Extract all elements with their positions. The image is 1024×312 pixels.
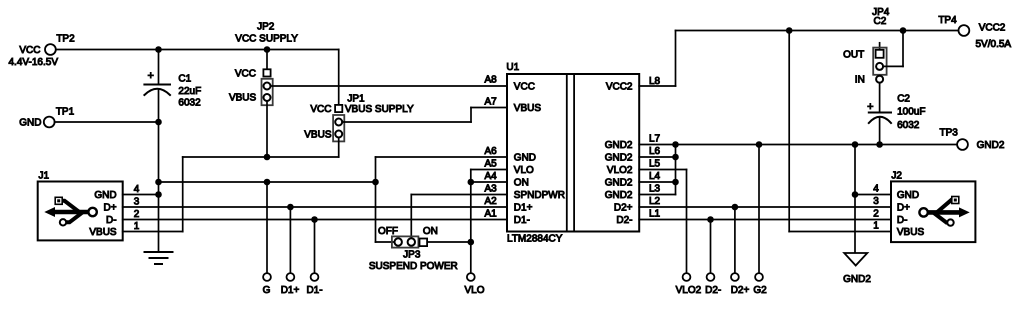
svg-text:GND: GND	[94, 190, 116, 201]
svg-text:A5: A5	[484, 159, 497, 170]
svg-text:6032: 6032	[897, 120, 920, 131]
svg-text:ON: ON	[423, 226, 438, 237]
svg-text:SUSPEND POWER: SUSPEND POWER	[369, 261, 458, 272]
svg-text:OFF: OFF	[378, 226, 398, 237]
svg-text:D-: D-	[106, 215, 117, 226]
svg-text:A6: A6	[484, 146, 497, 157]
svg-text:22uF: 22uF	[178, 86, 201, 97]
svg-text:L2: L2	[649, 196, 661, 207]
svg-text:SPNDPWR: SPNDPWR	[514, 190, 565, 201]
svg-text:D2+: D2+	[731, 285, 750, 296]
svg-text:D2+: D2+	[614, 203, 633, 214]
svg-text:JP1: JP1	[347, 94, 365, 105]
svg-text:D-: D-	[897, 215, 908, 226]
svg-text:+: +	[147, 70, 153, 82]
svg-text:VCC: VCC	[19, 45, 40, 56]
svg-text:VCC: VCC	[310, 104, 331, 115]
svg-text:GND2: GND2	[605, 153, 633, 164]
svg-text:VLO2: VLO2	[676, 285, 702, 296]
svg-text:TP2: TP2	[56, 34, 75, 45]
svg-text:3: 3	[134, 197, 140, 208]
svg-text:L5: L5	[649, 159, 661, 170]
svg-text:GND2: GND2	[605, 140, 633, 151]
svg-text:OUT: OUT	[843, 50, 864, 61]
svg-text:JP3: JP3	[403, 250, 421, 261]
svg-text:VCC2: VCC2	[979, 22, 1006, 33]
svg-text:G2: G2	[753, 285, 767, 296]
svg-text:A1: A1	[484, 209, 497, 220]
svg-text:GND: GND	[514, 153, 536, 164]
svg-text:VLO: VLO	[514, 165, 534, 176]
svg-text:L4: L4	[649, 171, 661, 182]
svg-text:VBUS: VBUS	[229, 93, 257, 104]
svg-text:A3: A3	[484, 184, 497, 195]
svg-text:A2: A2	[484, 196, 497, 207]
svg-text:L3: L3	[649, 184, 661, 195]
svg-text:A7: A7	[484, 97, 497, 108]
svg-text:GND2: GND2	[843, 274, 871, 285]
svg-text:VBUS: VBUS	[89, 227, 117, 238]
svg-text:GND: GND	[19, 118, 41, 129]
svg-text:A8: A8	[484, 75, 497, 86]
svg-text:4.4V-16.5V: 4.4V-16.5V	[9, 57, 59, 68]
svg-text:LTM2884CY: LTM2884CY	[507, 234, 563, 245]
svg-text:GND2: GND2	[605, 178, 633, 189]
svg-text:GND: GND	[897, 190, 919, 201]
svg-text:VLO: VLO	[464, 285, 484, 296]
svg-text:J2: J2	[891, 171, 902, 182]
svg-text:IN: IN	[855, 75, 865, 86]
svg-text:D1+: D1+	[281, 285, 300, 296]
svg-text:TP1: TP1	[56, 107, 75, 118]
svg-text:G: G	[263, 285, 271, 296]
svg-text:4: 4	[873, 184, 879, 195]
svg-text:U1: U1	[506, 62, 519, 73]
svg-text:VCC SUPPLY: VCC SUPPLY	[235, 34, 298, 45]
svg-text:4: 4	[134, 184, 140, 195]
svg-text:2: 2	[134, 209, 140, 220]
svg-text:JP2: JP2	[257, 22, 275, 33]
svg-text:5V/0.5A: 5V/0.5A	[976, 39, 1012, 50]
svg-text:TP3: TP3	[940, 128, 959, 139]
svg-text:C2: C2	[874, 16, 887, 27]
svg-text:VBUS: VBUS	[514, 103, 542, 114]
svg-text:VLO2: VLO2	[607, 165, 633, 176]
svg-text:6032: 6032	[178, 98, 201, 109]
svg-text:VBUS: VBUS	[304, 130, 332, 141]
svg-text:D1-: D1-	[306, 285, 322, 296]
svg-text:+: +	[867, 101, 873, 113]
svg-text:D1+: D1+	[514, 203, 533, 214]
svg-text:D2-: D2-	[616, 215, 632, 226]
svg-text:L7: L7	[649, 134, 661, 145]
svg-text:TP4: TP4	[938, 15, 957, 26]
svg-text:2: 2	[873, 209, 879, 220]
svg-text:L1: L1	[649, 209, 661, 220]
svg-text:C2: C2	[897, 94, 910, 105]
svg-text:GND2: GND2	[605, 190, 633, 201]
svg-text:VBUS: VBUS	[897, 227, 925, 238]
svg-text:L6: L6	[649, 146, 661, 157]
svg-text:D1-: D1-	[514, 215, 530, 226]
svg-text:J1: J1	[39, 171, 50, 182]
svg-text:D2-: D2-	[705, 285, 721, 296]
svg-text:1: 1	[873, 221, 879, 232]
svg-text:D+: D+	[897, 203, 910, 214]
svg-text:A4: A4	[484, 171, 497, 182]
svg-text:3: 3	[873, 196, 879, 207]
svg-text:D+: D+	[104, 203, 117, 214]
svg-text:VCC2: VCC2	[606, 82, 633, 93]
svg-text:VBUS SUPPLY: VBUS SUPPLY	[345, 104, 414, 115]
svg-text:C1: C1	[178, 74, 191, 85]
svg-text:VCC: VCC	[514, 82, 535, 93]
svg-text:ON: ON	[514, 178, 529, 189]
svg-text:GND2: GND2	[977, 140, 1005, 151]
svg-text:1: 1	[134, 221, 140, 232]
svg-text:100uF: 100uF	[897, 107, 925, 118]
svg-text:VCC: VCC	[235, 68, 256, 79]
